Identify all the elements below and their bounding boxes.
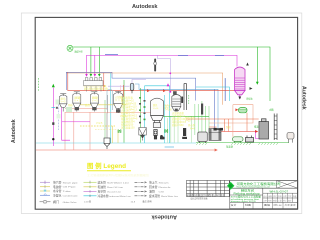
svg-text:Condensate: Condensate xyxy=(63,194,79,197)
red arrow duster xyxy=(255,130,258,133)
wire red drop V4 xyxy=(106,95,109,138)
wire blue dash on magenta a xyxy=(178,54,188,56)
wire cyan highlight on return xyxy=(165,146,174,148)
tank T5 center xyxy=(151,98,164,127)
bottom row labels xyxy=(231,203,296,207)
svg-text:脱色: 脱色 xyxy=(85,103,90,107)
wire green vertical a xyxy=(104,100,106,143)
svg-text:河南方欣化工工程务有限公司: 河南方欣化工工程务有限公司 xyxy=(237,181,281,186)
ground hatch marks xyxy=(196,143,278,145)
svg-text:V=2.5: V=2.5 xyxy=(120,115,127,118)
cyan tick left riser xyxy=(52,106,56,108)
svg-text:Henan Fobem Chemical Equipment: Henan Fobem Chemical Equipment Co.,Ltd xyxy=(237,186,270,189)
wire cyan vertical v6 xyxy=(163,95,165,143)
svg-text:泵房: 泵房 xyxy=(226,125,231,129)
reactor V1 xyxy=(60,94,67,112)
legend mid column xyxy=(135,182,148,196)
arrow green drop2 xyxy=(98,74,101,77)
svg-text:V=2.5: V=2.5 xyxy=(96,122,103,125)
svg-text:Autodesk: Autodesk xyxy=(132,4,158,10)
wire red hx drop xyxy=(246,113,248,132)
wire green drop 1 xyxy=(90,47,92,76)
wire red orange-box drop xyxy=(232,123,234,137)
wire blue main xyxy=(66,72,196,90)
svg-text:蒸汽管: 蒸汽管 xyxy=(53,180,62,184)
svg-text:工艺管道图例说明与绘图标准对照表制图规范: 工艺管道图例说明与绘图标准对照表制图规范 xyxy=(87,173,150,177)
svg-text:图 例 Legend: 图 例 Legend xyxy=(87,161,126,170)
pale green pipe bank xyxy=(195,101,209,135)
valve marks green pair xyxy=(165,129,168,132)
heat exchanger HX1 (green) xyxy=(239,108,248,113)
wire green vertical c xyxy=(139,88,141,143)
instrument IV1 on magenta main xyxy=(154,59,157,72)
wire blue vertical right xyxy=(224,78,226,101)
svg-text:脱色塔加热器余热回收: 脱色塔加热器余热回收 xyxy=(84,87,109,91)
paper sheet edge xyxy=(21,13,302,214)
svg-text:N=4: N=4 xyxy=(190,128,195,131)
red arrow end xyxy=(215,149,218,152)
svg-text:Oil Pipe: Oil Pipe xyxy=(63,187,78,189)
wire red to duster xyxy=(212,131,257,133)
wire green ground right xyxy=(196,142,289,144)
wire red manifold low a xyxy=(65,107,108,109)
svg-text:F=20: F=20 xyxy=(185,120,191,123)
legend rows xyxy=(84,180,179,203)
small cells text xyxy=(263,195,297,203)
crossed box xyxy=(277,181,298,189)
wire blue branch down xyxy=(195,78,197,100)
svg-text:Autodesk: Autodesk xyxy=(11,119,17,143)
vessel V6 striped xyxy=(172,92,181,112)
svg-text:Refining workshop: Refining workshop xyxy=(234,192,261,195)
svg-text:Vacuum Line: Vacuum Line xyxy=(107,191,122,193)
filter box FB1 dark xyxy=(209,129,221,141)
svg-text:V=5: V=5 xyxy=(115,99,123,102)
dark bar conveyor xyxy=(214,128,224,131)
legA row 1 steam line xyxy=(40,181,50,183)
logo diamond xyxy=(227,182,234,190)
svg-text:Soft Water Line: Soft Water Line xyxy=(107,181,130,184)
arrow red main a xyxy=(147,89,150,92)
wire red return bottom xyxy=(36,149,217,151)
manifold M1 xyxy=(84,78,104,86)
svg-text:软水管: 软水管 xyxy=(98,180,107,184)
wire green dash v6 xyxy=(188,95,190,105)
vessel small VA xyxy=(233,137,244,143)
wire red box left ext xyxy=(209,122,233,124)
reactor V4 xyxy=(114,91,123,113)
legend column A xyxy=(40,180,79,204)
svg-text:蒸汽耗量150: 蒸汽耗量150 xyxy=(121,126,135,130)
blower B1 (green circle) xyxy=(67,45,73,51)
legA row 4 condensate xyxy=(40,194,50,196)
junction dot xyxy=(52,138,54,140)
svg-text:V=5: V=5 xyxy=(61,101,67,104)
element E1 small xyxy=(182,128,187,139)
wire red cross mid low xyxy=(186,118,259,120)
svg-text:离心泵: 离心泵 xyxy=(188,123,196,127)
yellow dashes left of V6 xyxy=(162,104,171,106)
legend row 1 soft water line xyxy=(84,181,97,183)
magenta arrow cyan box xyxy=(167,83,170,86)
valve marks left branch xyxy=(60,105,63,107)
svg-text:蒸上汽: 蒸上汽 xyxy=(149,180,158,184)
legA row 2 oil line xyxy=(40,186,50,188)
wire yellow dotted low2 xyxy=(95,129,117,131)
wire magenta small bottom right xyxy=(256,132,260,139)
svg-text:WH-JL-GY-07: WH-JL-GY-07 xyxy=(270,190,289,193)
wire yellow run mid xyxy=(78,104,126,106)
wire green drop 2 xyxy=(98,47,100,76)
svg-text:毛油管: 毛油管 xyxy=(53,185,62,189)
wire red main upper xyxy=(68,90,235,92)
wire red drop V1 xyxy=(64,112,66,150)
svg-text:毛油管: 毛油管 xyxy=(98,185,107,189)
wire yellow dotted low xyxy=(80,125,115,127)
wire cyan ground left xyxy=(36,142,196,144)
wire blue top segment xyxy=(105,54,118,56)
stack S1 xyxy=(274,114,277,141)
svg-text:Raw Oil Line: Raw Oil Line xyxy=(107,187,124,189)
wire yellow vertical b xyxy=(117,130,119,144)
filter F1 capsule xyxy=(130,80,146,94)
legA row 5 valve xyxy=(40,201,51,203)
svg-text:油管: 油管 xyxy=(149,190,155,194)
svg-text:Waste Water Line: Waste Water Line xyxy=(161,195,179,198)
svg-text:回水管: 回水管 xyxy=(149,185,158,189)
pump P1 xyxy=(160,135,165,139)
condenser arrows xyxy=(246,63,249,66)
svg-text:V=5: V=5 xyxy=(92,100,99,103)
wire green main header xyxy=(73,47,257,84)
legend row 3 vacuum line xyxy=(84,190,97,192)
svg-text:Recircle: Recircle xyxy=(159,187,172,189)
wire magenta left riser xyxy=(52,88,54,147)
wire lavender to capsule xyxy=(108,85,129,87)
wire yellow vertical a xyxy=(112,126,114,143)
drawing border frame xyxy=(35,17,297,209)
arrow red into hx xyxy=(235,108,238,111)
svg-text:V=5: V=5 xyxy=(74,100,81,103)
svg-text:真空: 真空 xyxy=(165,104,170,108)
wire magenta main xyxy=(86,55,237,66)
pipe arch left of V4 xyxy=(107,89,113,110)
wire red manifold low b xyxy=(65,112,152,114)
dust collector DC1 xyxy=(259,119,269,139)
wire red short V4 xyxy=(123,85,125,97)
wire pink vertical V4b xyxy=(120,85,122,96)
green arrow end xyxy=(256,82,259,85)
svg-text:Steam: Steam xyxy=(159,181,170,184)
svg-text:日: 日 xyxy=(221,194,225,197)
small drum far right xyxy=(287,133,294,143)
magenta dot node xyxy=(169,72,171,74)
legA row 3 tube xyxy=(40,190,50,192)
svg-text:Autodesk: Autodesk xyxy=(151,214,177,220)
wire green vertical b xyxy=(123,80,125,143)
wire cyan condenser feed xyxy=(196,87,229,101)
wire bluecyan mid run xyxy=(135,84,218,129)
green patch left xyxy=(56,100,61,105)
valve bowtie left xyxy=(118,130,121,133)
svg-text:风机G=30: 风机G=30 xyxy=(75,50,83,54)
bullet marks column xyxy=(139,97,146,123)
arrow green drop1 xyxy=(90,74,93,77)
reactor V3 xyxy=(90,92,98,112)
wire blue drop filterbox xyxy=(214,89,216,128)
legend row 4 water line xyxy=(84,195,97,197)
wire magenta drop 2 xyxy=(94,55,96,75)
legend arrows col xyxy=(145,181,147,197)
wire red drop V3 xyxy=(89,112,91,150)
dark blob left riser xyxy=(52,122,54,125)
twin column pipes xyxy=(184,84,187,111)
condenser C1 (magenta vessel) xyxy=(235,67,245,99)
wire green branch right xyxy=(257,47,270,101)
valve K1 xyxy=(154,130,157,140)
svg-text:真空管: 真空管 xyxy=(98,190,107,194)
wire red vert right of manifold xyxy=(103,73,105,91)
cyan box around tank T5 xyxy=(145,86,170,143)
wire red drops right pair xyxy=(224,119,226,132)
wire magenta cross low xyxy=(62,121,90,123)
vessel small VB xyxy=(246,136,254,143)
wire green dashed left frame xyxy=(38,78,40,92)
manifold outlet pipes xyxy=(87,86,102,91)
reactor V2 xyxy=(73,92,81,112)
svg-text:转速n=960: 转速n=960 xyxy=(172,123,184,127)
svg-text:diagram sheet 30T/D: diagram sheet 30T/D xyxy=(231,200,257,203)
green arrow left riser xyxy=(52,84,55,87)
svg-text:至泵房: 至泵房 xyxy=(226,145,234,149)
arrow red main b xyxy=(163,89,166,92)
wire cyan vertical xyxy=(110,73,112,143)
wire blue dash on magenta b xyxy=(215,54,224,56)
svg-text:预热: 预热 xyxy=(68,103,73,107)
dark pump on pipe bank xyxy=(201,104,203,115)
svg-text:Globe Valve: Globe Valve xyxy=(63,202,78,204)
pump beside V6 xyxy=(181,97,183,104)
wire lavender to condenser box xyxy=(158,55,171,91)
svg-text:冷凝水: 冷凝水 xyxy=(53,193,62,197)
wire magenta drop 1 xyxy=(86,55,88,75)
wire blue dashed gauge xyxy=(57,105,59,131)
svg-text:废水蒸管: 废水蒸管 xyxy=(149,194,160,198)
svg-text:V=10: V=10 xyxy=(153,108,159,110)
legend row 2 oil line xyxy=(84,186,97,188)
svg-text:Condensed Water Line: Condensed Water Line xyxy=(108,195,132,198)
svg-text:Steam pipe: Steam pipe xyxy=(63,181,79,184)
wire green cross mid xyxy=(163,115,209,117)
svg-text:Autodesk: Autodesk xyxy=(301,86,307,110)
pale green fence mid xyxy=(168,116,192,142)
arrow magenta drop2 xyxy=(94,74,97,77)
wire red riser left xyxy=(67,72,69,91)
wire yellow manifold out xyxy=(84,85,106,87)
wire red box condenser loop xyxy=(233,105,253,123)
wire red drop V2 xyxy=(73,112,75,150)
wire magenta left branch xyxy=(62,105,70,141)
svg-text:水冷管: 水冷管 xyxy=(53,189,62,193)
svg-text:阀门: 阀门 xyxy=(53,200,59,204)
arrow magenta drop1 xyxy=(85,74,88,77)
wire orange long xyxy=(67,73,223,105)
tank T2 gray xyxy=(198,132,208,143)
small hopper H2 xyxy=(104,138,110,149)
hopper box H1 xyxy=(139,128,147,141)
wire red low ext xyxy=(209,126,217,128)
